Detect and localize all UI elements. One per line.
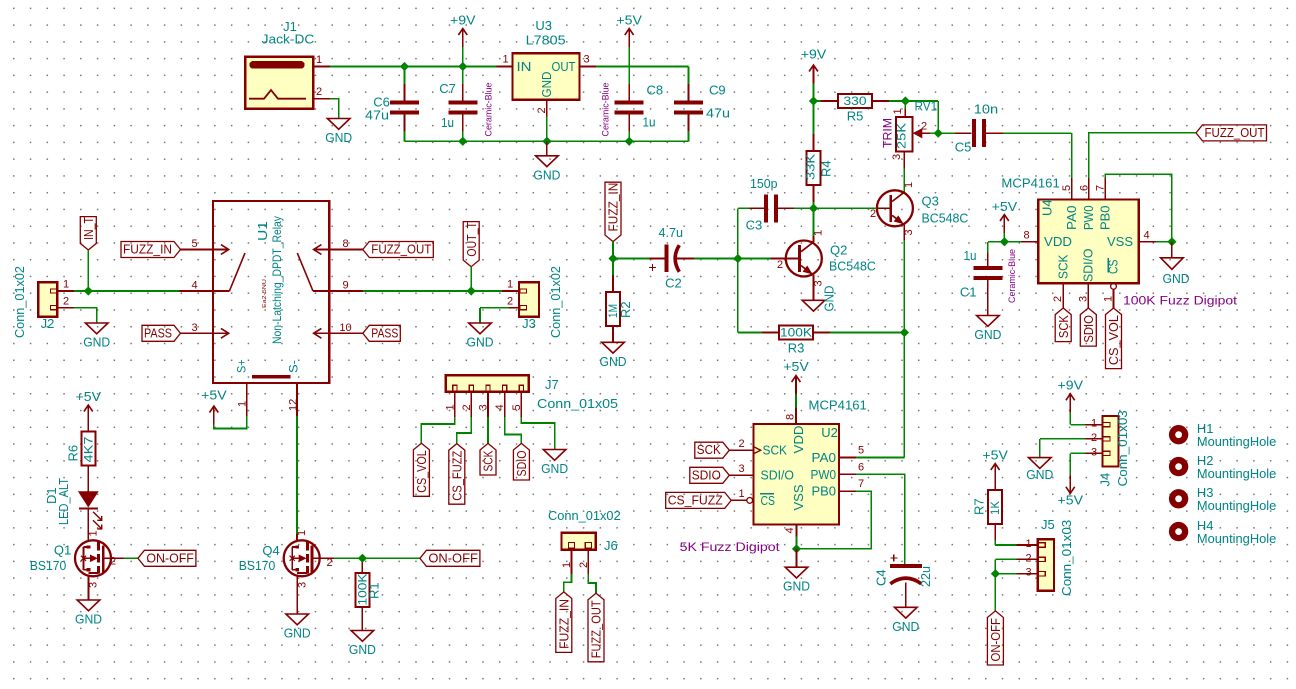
svg-text:5: 5 — [1061, 185, 1073, 191]
svg-text:+9V: +9V — [450, 13, 476, 28]
svg-text:2: 2 — [578, 562, 590, 568]
svg-text:MountingHole: MountingHole — [1197, 434, 1276, 449]
svg-text:R4: R4 — [819, 160, 834, 177]
svg-text:10: 10 — [339, 322, 351, 334]
svg-text:J4: J4 — [1098, 473, 1113, 487]
svg-text:J7: J7 — [545, 377, 559, 392]
svg-text:1: 1 — [1025, 538, 1031, 550]
svg-text:3: 3 — [1091, 446, 1097, 458]
svg-text:2: 2 — [507, 295, 513, 307]
svg-text:9: 9 — [342, 280, 348, 292]
svg-text:Ceramic-Blue: Ceramic-Blue — [1007, 249, 1017, 303]
svg-text:SDI/O: SDI/O — [761, 469, 795, 483]
svg-text:PB0: PB0 — [812, 485, 837, 499]
svg-text:Conn_01x02: Conn_01x02 — [12, 266, 27, 338]
svg-text:GND: GND — [540, 72, 554, 98]
svg-text:5: 5 — [858, 445, 864, 457]
svg-text:47u: 47u — [706, 106, 730, 121]
svg-text:GND: GND — [284, 626, 311, 641]
svg-text:4: 4 — [191, 280, 197, 292]
svg-text:5K Fuzz Digipot: 5K Fuzz Digipot — [680, 540, 781, 554]
svg-text:1: 1 — [444, 404, 456, 410]
svg-text:PA0: PA0 — [1065, 206, 1079, 231]
svg-text:SDIO: SDIO — [515, 450, 529, 476]
svg-text:VSS: VSS — [792, 485, 806, 511]
svg-text:FUZZ_IN: FUZZ_IN — [607, 183, 621, 232]
svg-text:1: 1 — [892, 108, 904, 114]
svg-text:Ceramic-Blue: Ceramic-Blue — [601, 83, 611, 137]
svg-text:GND: GND — [325, 130, 352, 145]
svg-text:3: 3 — [1077, 296, 1089, 302]
svg-text:BS170: BS170 — [239, 558, 276, 573]
svg-text:SCK: SCK — [697, 443, 722, 457]
svg-text:FUZZ_OUT: FUZZ_OUT — [371, 243, 431, 257]
svg-text:47u: 47u — [365, 108, 389, 123]
svg-text:4K7: 4K7 — [81, 436, 95, 462]
svg-text:1: 1 — [903, 182, 915, 188]
svg-text:2: 2 — [777, 259, 783, 271]
svg-text:GND: GND — [349, 642, 376, 657]
svg-text:+5V: +5V — [616, 13, 642, 28]
svg-text:SCK: SCK — [1056, 254, 1070, 279]
svg-text:CS_FUZZ: CS_FUZZ — [668, 493, 723, 507]
svg-text:1: 1 — [502, 54, 508, 66]
svg-text:SCK: SCK — [1057, 315, 1071, 339]
svg-text:ON-OFF: ON-OFF — [989, 618, 1003, 662]
svg-text:+5V: +5V — [1058, 493, 1084, 508]
svg-text:IN: IN — [517, 60, 532, 74]
svg-text:25K: 25K — [895, 123, 909, 149]
svg-text:SCK: SCK — [482, 450, 496, 471]
svg-text:J5: J5 — [1041, 517, 1055, 532]
svg-text:R2: R2 — [618, 301, 633, 318]
svg-text:FUZZ_IN: FUZZ_IN — [123, 243, 172, 257]
svg-text:1: 1 — [236, 401, 248, 407]
svg-text:1K: 1K — [988, 501, 1002, 515]
svg-text:+5V: +5V — [783, 359, 809, 374]
svg-text:J3: J3 — [522, 316, 536, 331]
svg-text:Q4: Q4 — [262, 543, 279, 558]
svg-text:2: 2 — [327, 557, 333, 569]
svg-text:8: 8 — [342, 238, 348, 250]
svg-text:VDD: VDD — [792, 426, 806, 454]
svg-text:Conn_01x02: Conn_01x02 — [548, 508, 621, 523]
svg-text:100K Fuzz Digipot: 100K Fuzz Digipot — [1123, 294, 1238, 308]
svg-text:GND: GND — [974, 327, 1001, 342]
svg-text:TRIM: TRIM — [883, 118, 895, 148]
svg-text:LED_ALT: LED_ALT — [56, 478, 71, 525]
svg-text:PB0: PB0 — [1098, 206, 1112, 231]
svg-text:Ceramic-Blue: Ceramic-Blue — [484, 83, 494, 137]
svg-text:R7: R7 — [972, 498, 987, 515]
svg-text:FUZZ_IN: FUZZ_IN — [557, 599, 571, 649]
svg-text:GND: GND — [541, 461, 568, 476]
svg-text:+9V: +9V — [801, 47, 827, 62]
svg-text:FUZZ_OUT: FUZZ_OUT — [1205, 126, 1265, 140]
svg-text:MCP4161: MCP4161 — [1001, 176, 1059, 191]
svg-text:2: 2 — [63, 295, 69, 307]
svg-text:2: 2 — [1052, 296, 1064, 302]
svg-text:Jack-DC: Jack-DC — [262, 32, 315, 47]
svg-text:PASS: PASS — [371, 326, 398, 340]
svg-text:10n: 10n — [974, 102, 998, 117]
svg-text:8: 8 — [785, 414, 797, 420]
svg-text:22u: 22u — [918, 566, 933, 587]
svg-text:J2: J2 — [41, 316, 55, 331]
svg-text:R5: R5 — [847, 109, 864, 124]
svg-text:C7: C7 — [439, 81, 456, 96]
svg-text:MountingHole: MountingHole — [1197, 498, 1276, 513]
svg-text:1: 1 — [87, 530, 99, 536]
svg-text:+5V: +5V — [982, 448, 1008, 463]
svg-text:CS_VOL: CS_VOL — [1107, 315, 1121, 365]
svg-text:3: 3 — [478, 404, 490, 410]
svg-text:3: 3 — [738, 463, 744, 475]
svg-text:Conn_01x03: Conn_01x03 — [1115, 410, 1130, 486]
svg-text:GND: GND — [1163, 271, 1190, 286]
svg-text:5: 5 — [191, 238, 197, 250]
svg-text:GND: GND — [823, 286, 837, 312]
svg-text:U3: U3 — [535, 18, 552, 33]
svg-text:Q2: Q2 — [830, 243, 847, 258]
svg-text:C4: C4 — [873, 569, 888, 586]
svg-text:GND: GND — [75, 612, 102, 627]
svg-text:GND: GND — [467, 335, 494, 350]
svg-text:3: 3 — [1025, 567, 1031, 579]
svg-text:VSS: VSS — [1107, 235, 1133, 249]
svg-text:ON-OFF: ON-OFF — [428, 551, 478, 565]
svg-text:R3: R3 — [788, 341, 805, 356]
svg-text:VDD: VDD — [1044, 235, 1072, 249]
svg-text:Conn_01x05: Conn_01x05 — [537, 396, 618, 411]
svg-text:1: 1 — [63, 279, 69, 291]
svg-text:CS_FUZZ: CS_FUZZ — [450, 450, 464, 500]
svg-text:ON-OFF: ON-OFF — [146, 551, 194, 565]
svg-text:33K: 33K — [804, 154, 818, 180]
svg-text:U2: U2 — [821, 425, 838, 440]
svg-text:4: 4 — [494, 404, 506, 410]
svg-text:1: 1 — [296, 530, 308, 536]
svg-text:SDIO: SDIO — [1082, 315, 1096, 343]
svg-text:+5V: +5V — [76, 389, 102, 404]
svg-text:2: 2 — [110, 556, 116, 568]
svg-text:+5V: +5V — [992, 199, 1018, 214]
svg-text:PASS: PASS — [144, 326, 172, 340]
svg-text:BC548C: BC548C — [829, 259, 876, 274]
svg-text:R6: R6 — [66, 445, 81, 462]
svg-text:SDIO: SDIO — [692, 468, 721, 482]
svg-text:MCP4161: MCP4161 — [809, 398, 867, 413]
svg-text:C1: C1 — [960, 285, 977, 300]
svg-text:4: 4 — [784, 527, 796, 533]
svg-text:1: 1 — [561, 562, 573, 568]
svg-text:GND: GND — [783, 579, 810, 594]
svg-text:C2: C2 — [665, 276, 682, 291]
svg-text:3: 3 — [88, 582, 100, 588]
svg-text:GND: GND — [600, 354, 627, 369]
svg-text:6: 6 — [858, 461, 864, 473]
svg-text:1: 1 — [316, 54, 322, 66]
svg-text:C5: C5 — [955, 140, 972, 155]
svg-text:3: 3 — [891, 154, 903, 160]
svg-text:C8: C8 — [647, 83, 664, 98]
svg-text:5: 5 — [511, 404, 523, 410]
svg-text:MountingHole: MountingHole — [1197, 466, 1276, 481]
svg-text:OUT_T: OUT_T — [465, 222, 479, 257]
svg-text:1: 1 — [1091, 418, 1097, 430]
svg-text:1u: 1u — [964, 248, 977, 263]
svg-text:J6: J6 — [604, 538, 618, 553]
svg-text:S-: S- — [287, 360, 301, 373]
svg-text:OUT: OUT — [552, 60, 576, 74]
svg-text:L7805: L7805 — [526, 33, 566, 48]
svg-text:PA0: PA0 — [812, 451, 837, 465]
svg-text:3: 3 — [583, 54, 589, 66]
svg-text:CS_VOL: CS_VOL — [415, 450, 429, 493]
svg-text:2: 2 — [738, 438, 744, 450]
svg-text:PW0: PW0 — [811, 468, 837, 482]
svg-text:+5V: +5V — [201, 388, 227, 403]
svg-text:1: 1 — [813, 230, 825, 236]
svg-text:100K: 100K — [780, 326, 812, 340]
svg-text:3: 3 — [191, 322, 197, 334]
svg-text:IN_T: IN_T — [82, 217, 96, 240]
svg-text:7: 7 — [1095, 185, 1107, 191]
svg-text:PW0: PW0 — [1082, 206, 1096, 231]
svg-text:2: 2 — [461, 404, 473, 410]
svg-text:1: 1 — [1103, 296, 1115, 302]
svg-text:3: 3 — [296, 582, 308, 588]
svg-text:150p: 150p — [750, 176, 778, 191]
svg-text:+9V: +9V — [1058, 378, 1084, 393]
svg-text:SCK: SCK — [763, 444, 788, 458]
svg-text:Conn_01x02: Conn_01x02 — [548, 266, 563, 338]
svg-text:330: 330 — [844, 94, 867, 108]
svg-text:1: 1 — [507, 279, 513, 291]
svg-text:1u: 1u — [441, 115, 454, 130]
svg-text:GND: GND — [533, 167, 560, 182]
svg-text:2: 2 — [316, 86, 322, 98]
svg-text:U4: U4 — [1040, 199, 1055, 216]
svg-text:R1: R1 — [367, 582, 382, 599]
svg-text:GND: GND — [1026, 467, 1053, 482]
svg-text:C3: C3 — [746, 218, 763, 233]
svg-text:SDI/O: SDI/O — [1081, 248, 1095, 282]
svg-text:4: 4 — [1143, 230, 1149, 242]
svg-text:2: 2 — [1091, 432, 1097, 444]
svg-text:RV1: RV1 — [915, 99, 938, 114]
svg-text:BC548C: BC548C — [922, 211, 969, 226]
svg-text:7: 7 — [858, 478, 864, 490]
svg-text:2: 2 — [1025, 552, 1031, 564]
svg-text:Q3: Q3 — [922, 194, 939, 209]
svg-text:2: 2 — [870, 208, 876, 220]
svg-text:12: 12 — [288, 399, 300, 411]
svg-text:U1: U1 — [255, 221, 270, 241]
svg-text:MountingHole: MountingHole — [1197, 531, 1276, 546]
svg-text:4.7u: 4.7u — [659, 225, 684, 240]
svg-text:Conn_01x03: Conn_01x03 — [1059, 520, 1074, 596]
svg-text:BS170: BS170 — [30, 558, 67, 573]
svg-text:C9: C9 — [709, 83, 726, 98]
svg-text:Q1: Q1 — [54, 543, 71, 558]
svg-text:8: 8 — [1023, 230, 1029, 242]
svg-text:FUZZ_OUT: FUZZ_OUT — [590, 600, 604, 658]
svg-text:1: 1 — [738, 488, 744, 500]
svg-text:6: 6 — [1078, 185, 1090, 191]
svg-text:S+: S+ — [235, 360, 249, 374]
svg-text:Ea2-5NU: Ea2-5NU — [262, 279, 268, 308]
svg-text:GND: GND — [892, 619, 919, 634]
svg-text:Non-Latching_DPDT_Relay: Non-Latching_DPDT_Relay — [270, 216, 284, 344]
svg-text:CS: CS — [761, 494, 776, 508]
svg-text:1u: 1u — [643, 115, 656, 130]
svg-text:GND: GND — [83, 335, 110, 350]
